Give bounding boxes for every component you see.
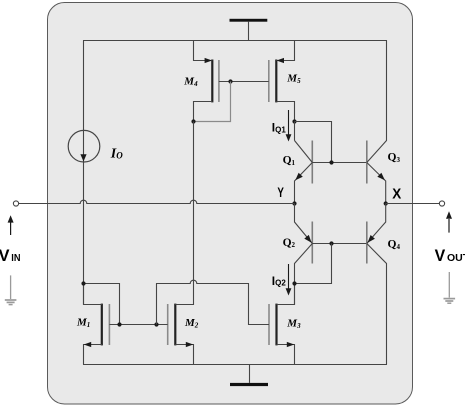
Q1/Q3 base tie wire [312, 162, 367, 164]
Q1 emitter arrow [295, 173, 303, 181]
Q3 emitter lead [367, 163, 386, 204]
label M3 [286, 318, 301, 331]
label I0 [110, 146, 123, 161]
junction dot M2 gate node [154, 322, 158, 326]
VIN ground symbol [5, 275, 17, 304]
label Q1 [283, 154, 296, 166]
junction dot I0/M1 node [81, 281, 85, 285]
node Y junction dot [292, 201, 296, 205]
Q2 collector lead [295, 244, 313, 305]
Q4 emitter arrow [368, 235, 375, 243]
Q2 emitter arrow [304, 235, 311, 243]
VSS supply bar [230, 383, 268, 386]
gate feed wire to M3 (with crossover hop) [157, 280, 270, 324]
svg-text:IN: IN [11, 252, 20, 264]
wire M4 drain to M2 drain [193, 122, 195, 284]
transistor M5 channel bar [275, 60, 277, 103]
svg-text:V: V [0, 246, 10, 265]
M1 drain lead [84, 284, 102, 305]
chip body (rounded rectangle) [48, 3, 413, 405]
Q4 collector lead [367, 244, 387, 365]
transistor M4 gate bar [218, 60, 220, 102]
M1/M2 gate tie wire [109, 324, 167, 326]
VDD stem wire [248, 22, 250, 41]
Q2 emitter lead [295, 204, 313, 244]
wire M5 drain node to Q1/Q3 base tie [295, 122, 332, 163]
M2 source arrow [186, 342, 194, 347]
input terminal [13, 201, 18, 206]
top rail wire (VDD net) [83, 40, 387, 42]
IQ2 annotation arrow [286, 264, 292, 296]
transistor M2 gate bar [167, 304, 169, 345]
transistor M2 channel bar [174, 304, 176, 346]
transistor M1 channel bar [101, 304, 103, 346]
M2 drain lead [175, 284, 193, 305]
Q3 emitter arrow [377, 173, 385, 181]
junction dot on M4/M5 gate line [228, 79, 232, 83]
M4 source arrow [205, 58, 213, 63]
VIN arrow [8, 215, 14, 235]
svg-text:V: V [435, 246, 446, 265]
M1 source arrow [84, 342, 92, 347]
current source I0 (circle) [68, 130, 100, 162]
svg-text:X: X [392, 186, 401, 203]
input wire VIN to node Y (with crossover hops) [19, 200, 295, 203]
M3 source arrow [287, 342, 295, 347]
bottom rail wire (VSS net) [83, 364, 387, 366]
label Q4 [388, 238, 401, 250]
svg-text:OUT: OUT [447, 252, 465, 264]
label M4 [183, 75, 198, 88]
left branch wire (I0 branch) [83, 41, 85, 305]
Q3 collector lead [367, 41, 387, 163]
M4 source lead [194, 41, 213, 61]
label Y [277, 184, 284, 200]
M5 source arrow [277, 58, 285, 63]
Q1 collector lead [295, 141, 313, 163]
junction dot Q2/Q4 base node [329, 241, 333, 245]
transistor Q2 base bar [311, 222, 313, 264]
label M5 [286, 72, 301, 85]
transistor M5 gate bar [268, 60, 270, 102]
transistor M3 channel bar [275, 304, 277, 346]
junction dot Q1/Q3 base node [329, 160, 333, 164]
node X junction dot [384, 201, 388, 205]
Q2 collector-base tie wire [295, 244, 332, 284]
Q4 emitter lead [367, 204, 386, 244]
label IQ2 [272, 274, 287, 288]
label M2 [184, 317, 199, 330]
Q2/Q4 base tie wire [312, 243, 367, 245]
VOUT ground symbol [444, 272, 456, 303]
IQ1 annotation arrow [286, 110, 292, 142]
transistor M3 gate bar [268, 304, 270, 345]
svg-text:Y: Y [277, 184, 284, 200]
label VOUT [435, 246, 465, 265]
label X [392, 186, 401, 203]
M4 drain lead [194, 102, 213, 122]
M1 source lead [84, 345, 102, 365]
M4 gate-drain tie wire (gray) [194, 82, 231, 122]
transistor M4 channel bar [211, 60, 213, 103]
transistor Q3 base bar [366, 141, 368, 184]
M3 drain lead [277, 284, 295, 305]
transistor Q1 base bar [311, 141, 313, 184]
VOUT arrow [446, 211, 452, 232]
VDD supply bar [230, 19, 268, 22]
label VIN [0, 246, 21, 265]
mirror gate feed wire from I0/M1 node [84, 284, 120, 325]
output terminal [439, 201, 444, 206]
wire M5 drain node down to Q1 collector [294, 122, 296, 141]
label Q2 [283, 237, 296, 249]
M4/M5 gate tie wire [219, 81, 269, 83]
M5 drain lead [276, 102, 294, 122]
label Q3 [388, 152, 401, 164]
junction dot M4 drain node [191, 119, 195, 123]
junction dot M5 drain node [292, 119, 296, 123]
M2 source lead [175, 345, 193, 365]
output wire node X to VOUT [386, 203, 440, 205]
current source I0 arrow [80, 154, 86, 161]
transistor Q4 base bar [366, 222, 368, 264]
junction dot M1 gate node [117, 322, 121, 326]
Q1 emitter lead [295, 163, 313, 204]
M3 source lead [277, 345, 295, 365]
label IQ1 [272, 121, 287, 135]
junction dot Q2 collector node [292, 281, 296, 285]
transistor M1 gate bar [108, 304, 110, 345]
label M1 [76, 317, 90, 330]
VSS stem wire [249, 365, 251, 383]
M5 source lead [276, 41, 294, 61]
